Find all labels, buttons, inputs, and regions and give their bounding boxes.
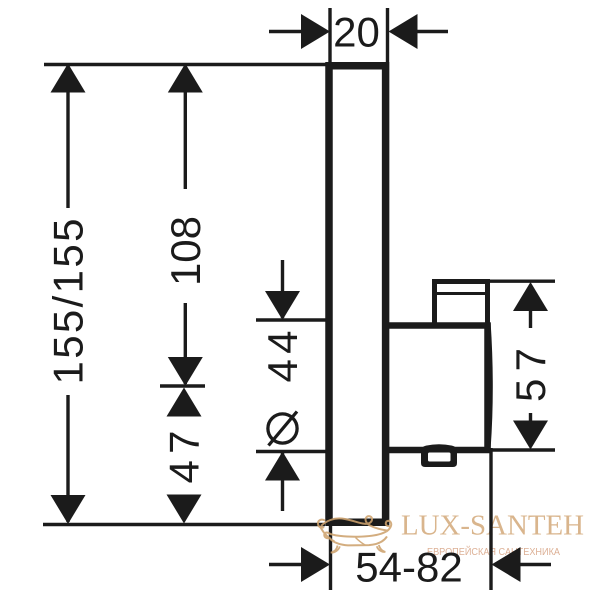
svg-text:155/155: 155/155: [45, 219, 92, 385]
svg-text:20: 20: [333, 9, 380, 56]
svg-text:54-82: 54-82: [355, 544, 462, 591]
svg-text:57: 57: [507, 348, 554, 402]
svg-text:44: 44: [259, 331, 306, 383]
svg-text:108: 108: [162, 216, 209, 286]
svg-text:47: 47: [161, 431, 208, 484]
